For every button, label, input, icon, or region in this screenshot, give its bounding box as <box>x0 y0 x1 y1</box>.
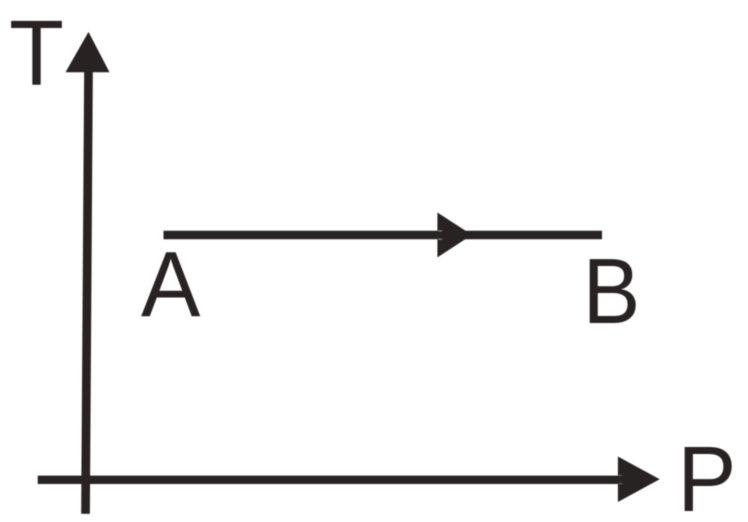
horizontal axis arrowhead <box>618 457 660 503</box>
svg-text:A: A <box>141 233 201 336</box>
P axis (horizontal) <box>38 476 620 484</box>
svg-text:P: P <box>677 428 736 522</box>
vertical axis arrowhead <box>66 32 110 72</box>
node label A <box>141 233 201 336</box>
svg-text:B: B <box>583 240 641 344</box>
axis label T <box>9 2 64 106</box>
node label B <box>583 240 641 344</box>
T axis (vertical) <box>86 70 89 514</box>
axis label P <box>677 428 736 522</box>
process line A to B <box>164 231 603 240</box>
svg-text:T: T <box>9 2 64 106</box>
arrowhead on process line <box>437 213 472 258</box>
